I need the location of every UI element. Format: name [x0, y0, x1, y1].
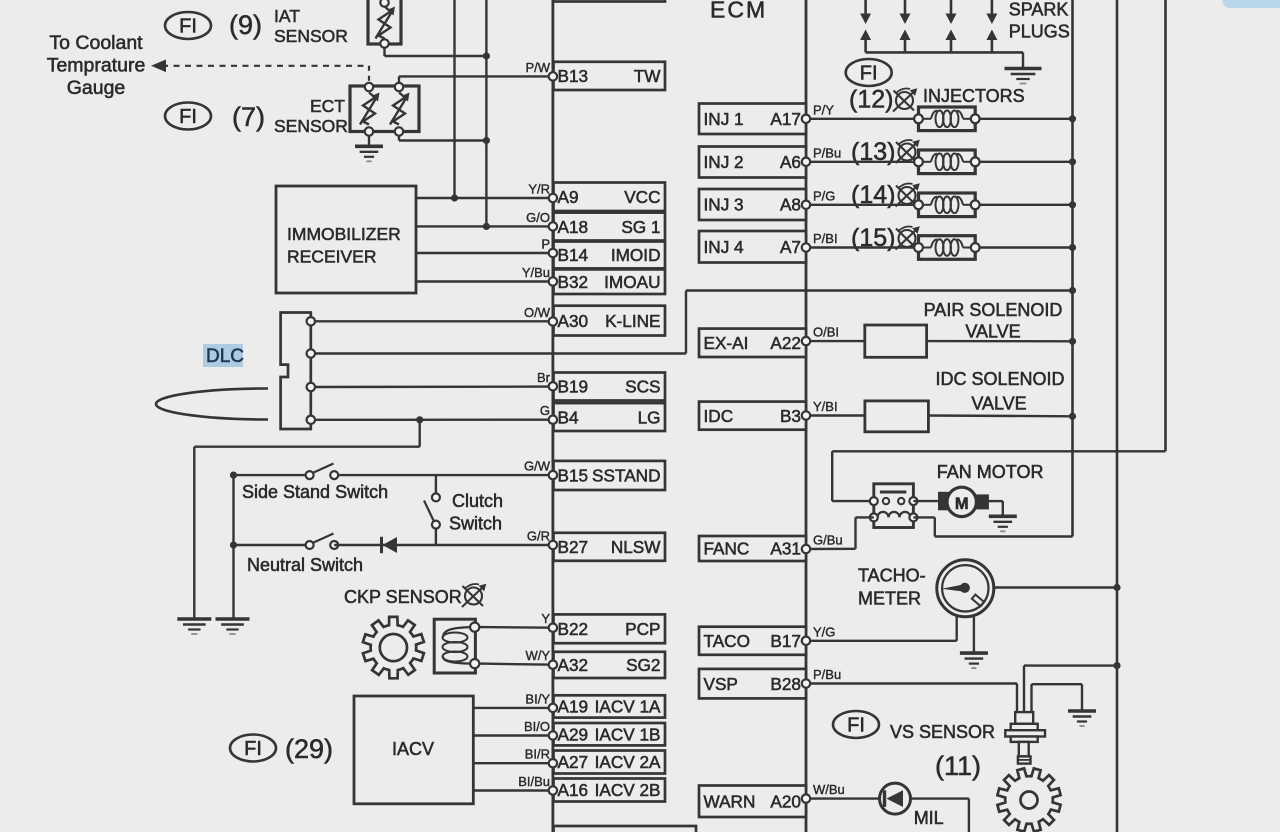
svg-text:A7: A7 — [780, 237, 801, 257]
svg-text:IDC SOLENOID: IDC SOLENOID — [935, 369, 1064, 389]
svg-text:B15: B15 — [558, 466, 589, 486]
svg-text:To Coolant: To Coolant — [49, 32, 143, 54]
svg-text:WARN: WARN — [704, 791, 756, 811]
svg-text:FI: FI — [244, 738, 262, 760]
svg-text:A20: A20 — [770, 791, 801, 811]
svg-text:LG: LG — [638, 407, 661, 427]
svg-text:SENSOR: SENSOR — [274, 26, 348, 46]
svg-text:ECM: ECM — [710, 0, 767, 23]
svg-text:Y: Y — [541, 611, 550, 626]
svg-text:INJECTORS: INJECTORS — [923, 86, 1025, 106]
svg-text:IDC: IDC — [704, 406, 734, 426]
svg-text:FI: FI — [860, 63, 878, 85]
svg-text:EX-AI: EX-AI — [704, 333, 749, 353]
svg-text:A17: A17 — [770, 109, 801, 129]
svg-text:SG2: SG2 — [626, 655, 660, 675]
svg-text:IACV 2B: IACV 2B — [595, 780, 661, 800]
svg-text:BI/Bu: BI/Bu — [518, 774, 550, 789]
svg-text:Y/R: Y/R — [528, 182, 550, 197]
svg-text:FANC: FANC — [704, 539, 750, 559]
svg-text:B27: B27 — [558, 537, 589, 557]
svg-text:INJ 2: INJ 2 — [704, 152, 744, 172]
svg-text:VSP: VSP — [704, 674, 738, 694]
svg-text:G/O: G/O — [526, 210, 550, 225]
svg-text:IAT: IAT — [274, 6, 300, 26]
svg-text:(9): (9) — [229, 10, 262, 40]
svg-text:Y/G: Y/G — [813, 624, 835, 639]
svg-text:A32: A32 — [558, 655, 589, 675]
svg-text:Switch: Switch — [449, 514, 502, 534]
svg-text:A19: A19 — [558, 697, 589, 717]
svg-text:A9: A9 — [558, 187, 579, 207]
svg-text:BI/R: BI/R — [525, 747, 550, 762]
svg-text:SSTAND: SSTAND — [592, 466, 660, 486]
svg-text:PLUGS: PLUGS — [1009, 22, 1070, 42]
svg-text:A22: A22 — [770, 333, 801, 353]
svg-text:P/Bu: P/Bu — [813, 145, 841, 160]
svg-text:W/Y: W/Y — [525, 648, 550, 663]
svg-text:IMMOBILIZER: IMMOBILIZER — [287, 224, 401, 244]
svg-text:A30: A30 — [558, 311, 589, 331]
svg-text:IACV: IACV — [392, 739, 434, 759]
svg-text:INJ 3: INJ 3 — [704, 195, 744, 215]
svg-text:METER: METER — [858, 589, 921, 609]
svg-text:INJ 1: INJ 1 — [704, 109, 744, 129]
svg-text:A16: A16 — [558, 780, 589, 800]
svg-text:VALVE: VALVE — [965, 322, 1020, 342]
svg-text:M: M — [955, 495, 969, 513]
svg-text:RECEIVER: RECEIVER — [287, 247, 376, 267]
svg-text:Y/Bu: Y/Bu — [522, 265, 550, 280]
svg-text:VCC: VCC — [624, 187, 660, 207]
svg-text:Neutral Switch: Neutral Switch — [247, 555, 363, 575]
svg-text:(7): (7) — [232, 102, 265, 132]
svg-text:B19: B19 — [558, 377, 589, 397]
svg-text:P/BI: P/BI — [813, 231, 838, 246]
svg-text:IACV 1A: IACV 1A — [595, 697, 661, 717]
svg-text:FI: FI — [179, 16, 197, 38]
svg-text:FAN MOTOR: FAN MOTOR — [937, 462, 1044, 482]
svg-text:B22: B22 — [558, 619, 589, 639]
svg-text:(11): (11) — [935, 751, 981, 781]
svg-text:Clutch: Clutch — [452, 491, 503, 511]
svg-text:G/Bu: G/Bu — [813, 533, 843, 548]
svg-text:P/W: P/W — [525, 60, 550, 75]
svg-text:A18: A18 — [558, 217, 589, 237]
svg-text:VS SENSOR: VS SENSOR — [890, 722, 995, 742]
svg-text:O/BI: O/BI — [813, 325, 839, 340]
svg-text:CKP SENSOR: CKP SENSOR — [344, 587, 462, 607]
svg-text:B28: B28 — [770, 674, 801, 694]
svg-text:TACO: TACO — [704, 631, 750, 651]
svg-text:TW: TW — [634, 66, 661, 86]
svg-text:W/Bu: W/Bu — [813, 782, 845, 797]
svg-text:(29): (29) — [285, 734, 333, 764]
svg-text:FI: FI — [847, 715, 865, 737]
svg-text:P/G: P/G — [813, 188, 835, 203]
svg-text:IMOID: IMOID — [611, 245, 661, 265]
svg-text:A29: A29 — [558, 724, 589, 744]
svg-text:P/Y: P/Y — [813, 102, 834, 117]
svg-text:NLSW: NLSW — [611, 537, 661, 557]
svg-text:B13: B13 — [558, 66, 589, 86]
svg-text:A31: A31 — [770, 539, 801, 559]
svg-text:VALVE: VALVE — [971, 394, 1026, 414]
svg-text:B17: B17 — [770, 631, 801, 651]
svg-text:K-LINE: K-LINE — [605, 311, 660, 331]
svg-text:IACV 2A: IACV 2A — [595, 752, 661, 772]
svg-text:SENSOR: SENSOR — [274, 116, 348, 136]
svg-text:Y/BI: Y/BI — [813, 399, 838, 414]
svg-text:IACV 1B: IACV 1B — [595, 724, 661, 744]
svg-text:B32: B32 — [558, 272, 589, 292]
svg-text:G/W: G/W — [524, 459, 551, 474]
svg-text:INJ 4: INJ 4 — [704, 237, 745, 257]
svg-text:SG 1: SG 1 — [621, 217, 660, 237]
svg-text:G: G — [540, 403, 550, 418]
svg-text:BI/O: BI/O — [524, 719, 550, 734]
svg-text:B3: B3 — [780, 406, 801, 426]
svg-text:FI: FI — [179, 106, 197, 128]
svg-text:BI/Y: BI/Y — [525, 691, 550, 706]
svg-text:P: P — [541, 237, 550, 252]
svg-text:MIL: MIL — [914, 808, 944, 828]
svg-text:B14: B14 — [558, 245, 589, 265]
svg-text:PCP: PCP — [625, 619, 660, 639]
svg-text:A8: A8 — [780, 195, 801, 215]
svg-text:ECT: ECT — [310, 96, 345, 116]
svg-text:B4: B4 — [558, 407, 579, 427]
svg-text:A6: A6 — [780, 152, 801, 172]
svg-text:O/W: O/W — [524, 305, 551, 320]
svg-text:SPARK: SPARK — [1009, 0, 1069, 20]
svg-text:Br: Br — [537, 370, 551, 385]
svg-text:TACHO-: TACHO- — [858, 566, 926, 586]
svg-text:Gauge: Gauge — [67, 77, 126, 99]
svg-text:P/Bu: P/Bu — [813, 667, 841, 682]
svg-text:PAIR SOLENOID: PAIR SOLENOID — [924, 300, 1063, 320]
svg-text:Temprature: Temprature — [47, 55, 146, 77]
svg-text:G/R: G/R — [527, 529, 550, 544]
svg-text:A27: A27 — [558, 752, 589, 772]
svg-text:SCS: SCS — [625, 377, 660, 397]
svg-text:Side Stand Switch: Side Stand Switch — [242, 482, 388, 502]
svg-text:IMOAU: IMOAU — [604, 272, 660, 292]
svg-text:(12): (12) — [849, 86, 893, 114]
svg-text:DLC: DLC — [206, 346, 244, 367]
